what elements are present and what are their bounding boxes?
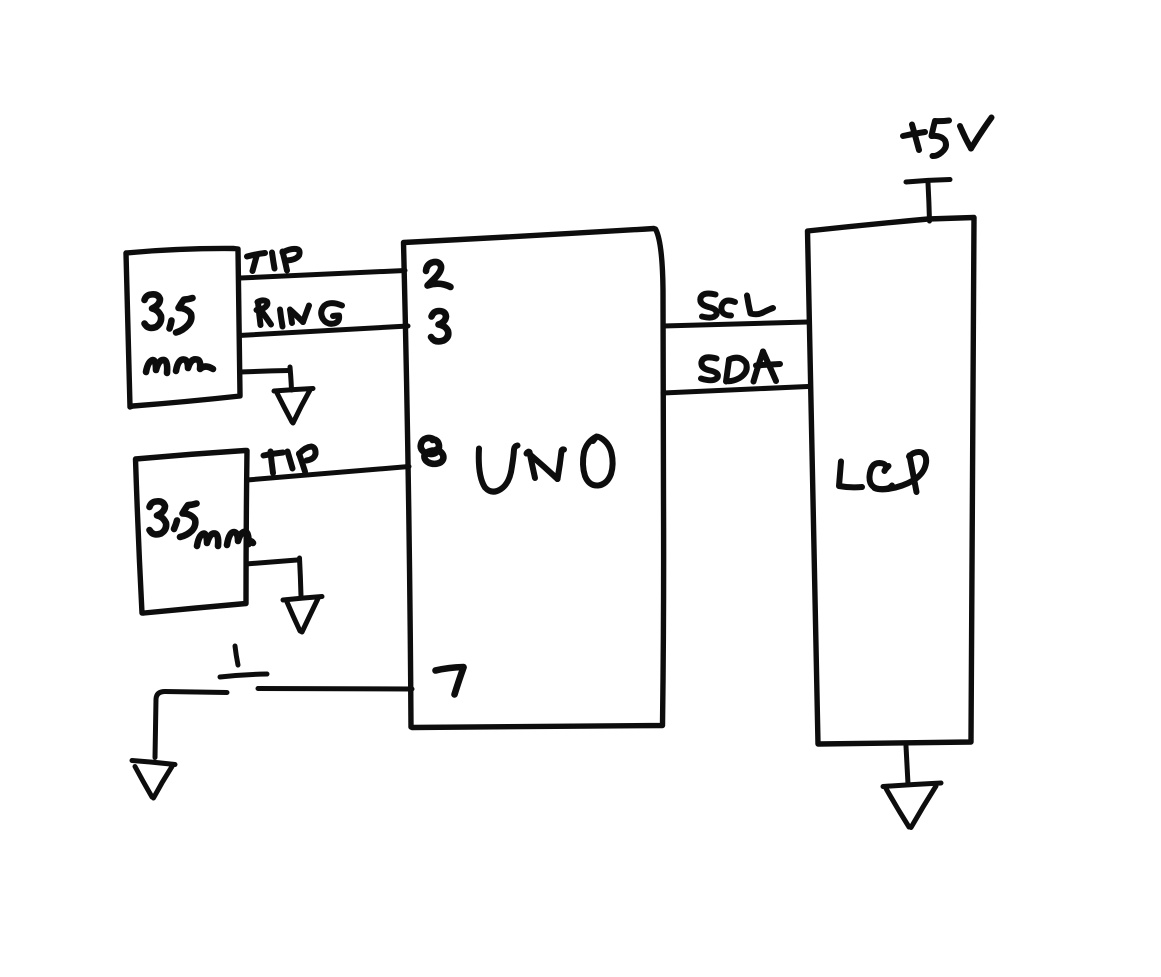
- pin label 2: [426, 262, 451, 287]
- label SCL: [700, 294, 773, 318]
- label mm subscript (J2): [197, 532, 253, 546]
- label +5V: [903, 118, 992, 157]
- jack J2 box (3.5mm): [136, 451, 248, 614]
- wire LCD to ground: [906, 746, 908, 784]
- pin label 8: [421, 438, 444, 464]
- label UNO: [479, 437, 613, 492]
- label TIP (J2): [264, 447, 316, 474]
- pin label 3: [431, 311, 448, 341]
- wire SDA UNO to LCD: [663, 387, 808, 394]
- label TIP (J1): [247, 249, 300, 271]
- wire TIP J1 to UNO pin 2: [240, 271, 405, 279]
- label 3,5 (J1): [145, 294, 193, 332]
- ground (J2): [283, 597, 322, 633]
- ground (S1): [132, 761, 175, 799]
- wire J2 sleeve to ground: [246, 558, 301, 596]
- pin label 7: [436, 667, 464, 695]
- jack J1 box (3.5mm): [126, 248, 240, 407]
- LCD box: [808, 218, 975, 745]
- wire J1 sleeve to ground: [240, 367, 292, 390]
- wire S1 to UNO pin 7: [258, 686, 412, 692]
- ground (LCD): [883, 783, 941, 828]
- label mm (J1): [146, 359, 213, 373]
- label RING: [257, 300, 343, 326]
- wire S1 to ground: [155, 692, 227, 758]
- wire SCL UNO to LCD: [663, 322, 808, 326]
- +5V power symbol: [906, 180, 950, 222]
- label LCD: [839, 452, 926, 492]
- wire TIP J2 to UNO pin 8: [247, 467, 409, 481]
- pushbutton S1 actuator: [220, 646, 267, 677]
- wire RING J1 to UNO pin 3: [239, 326, 408, 336]
- ground (J1): [274, 389, 313, 424]
- UNO box U1: [404, 229, 664, 728]
- label 3,5 (J2): [150, 501, 197, 537]
- label SDA: [701, 352, 780, 382]
